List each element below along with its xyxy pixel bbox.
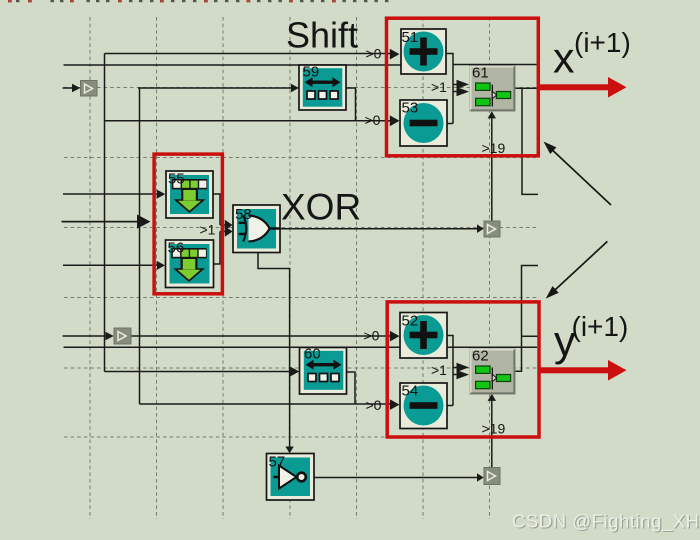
red output arrow x xyxy=(537,77,627,98)
wire mux 62 output bracket node Y xyxy=(515,266,538,372)
label x(i+1) xyxy=(553,27,631,83)
wire adder 52 output xyxy=(447,336,453,406)
svg-text:>1: >1 xyxy=(431,362,447,378)
adder block 51 xyxy=(401,29,446,74)
wire L4 into shift block 60 xyxy=(105,367,300,377)
wire mux 61 output xyxy=(515,87,537,89)
wire gateway G3 up to mux 61 select xyxy=(488,111,496,221)
svg-text:>1: >1 xyxy=(431,79,447,95)
svg-text:59: 59 xyxy=(303,64,320,81)
wire L1 into adder 51 xyxy=(105,49,400,60)
wire subtractor 53 output xyxy=(447,123,453,125)
wire bus into subtractor 53 xyxy=(105,115,400,126)
wire input into shifter 56 xyxy=(63,261,165,270)
wire L2 pass line upper xyxy=(64,64,537,67)
wire xor 58 branch down to inverter 57 xyxy=(258,252,294,453)
svg-text:(i+1): (i+1) xyxy=(574,27,631,58)
annotation arrow B xyxy=(546,241,608,298)
svg-text:54: 54 xyxy=(402,383,419,400)
svg-text:>0: >0 xyxy=(366,46,382,62)
red output arrow y xyxy=(538,360,627,381)
wire gateway G2 output to adder 52 xyxy=(131,331,400,342)
svg-text:51: 51 xyxy=(402,29,419,46)
gateway G1 xyxy=(81,81,98,97)
wire shift 59 output xyxy=(346,88,356,121)
svg-text:62: 62 xyxy=(472,348,489,365)
wire bus into subtractor 54 xyxy=(140,399,400,410)
svg-text:61: 61 xyxy=(472,65,489,82)
svg-text:56: 56 xyxy=(168,240,185,257)
subtractor block 54 xyxy=(400,383,447,429)
mux block 61 xyxy=(470,65,515,112)
label y(i+1) xyxy=(554,311,628,366)
gateway G2 xyxy=(114,328,131,344)
svg-text:(i+1): (i+1) xyxy=(572,311,629,342)
wire input into shifter 55 xyxy=(63,190,165,199)
svg-text:>0: >0 xyxy=(365,112,381,128)
wire inverter 57 output to gateway G4 xyxy=(314,473,484,482)
wire input arrow to gateway G1 xyxy=(63,84,81,92)
shift block 60 xyxy=(300,346,347,395)
inverter gate 57 xyxy=(267,454,315,501)
svg-text:>19: >19 xyxy=(482,140,506,156)
wire vertical bus V2 from node (139.5,88) down xyxy=(139,88,141,404)
wire into xor 58 xyxy=(220,220,233,237)
watermark CSDN xyxy=(512,511,700,534)
svg-text:XOR: XOR xyxy=(281,187,361,228)
gateway G3 xyxy=(484,221,500,237)
svg-text:Shift: Shift xyxy=(286,15,358,56)
wire subtractor 54 output xyxy=(447,405,453,407)
wire gateway G1 output to shift block 59 xyxy=(138,84,299,92)
wire gateway G4 up to mux 62 select xyxy=(488,394,496,468)
cropped text remnants top xyxy=(8,0,388,2)
svg-text:53: 53 xyxy=(402,100,419,117)
subtractor block 53 xyxy=(400,100,447,147)
wire vertical bus V1 xyxy=(104,54,106,372)
annotation arrow A xyxy=(544,142,612,206)
svg-text:CSDN @Fighting_XH: CSDN @Fighting_XH xyxy=(512,511,700,533)
svg-text:52: 52 xyxy=(402,313,419,330)
svg-text:57: 57 xyxy=(269,454,286,471)
xor gate 58 xyxy=(233,205,280,253)
wire shifter 55 output xyxy=(213,194,220,225)
shifter block 55 xyxy=(166,171,213,219)
mux block 62 xyxy=(470,348,515,395)
svg-text:>0: >0 xyxy=(366,397,382,413)
wire into mux 62 xyxy=(453,363,469,379)
wire input arrow to gateway G2 xyxy=(63,332,114,340)
gateway G4 xyxy=(484,468,500,485)
shift block 59 xyxy=(299,64,346,111)
adder block 52 xyxy=(400,313,447,359)
wire L2b pass line lower xyxy=(64,346,538,348)
wire xor 58 output to gateway G3 xyxy=(280,224,484,233)
wire into mux 61 xyxy=(453,80,469,96)
svg-text:55: 55 xyxy=(168,171,185,188)
svg-text:>0: >0 xyxy=(364,328,380,344)
shifter block 56 xyxy=(166,240,214,288)
wire shift 60 output xyxy=(347,372,356,404)
wire big input arrow xyxy=(62,215,151,229)
red highlight box 3 xyxy=(154,154,222,294)
svg-text:58: 58 xyxy=(235,206,252,223)
wire adder 51 output xyxy=(446,54,453,124)
svg-text:>19: >19 xyxy=(482,421,506,437)
red highlight box 1 xyxy=(387,18,539,156)
svg-text:x: x xyxy=(553,35,575,83)
wire shifter 56 output xyxy=(214,232,221,265)
red highlight box 2 xyxy=(387,302,539,437)
svg-text:60: 60 xyxy=(304,346,321,363)
wire bracket node X xyxy=(522,88,538,194)
svg-text:>1: >1 xyxy=(200,222,216,238)
